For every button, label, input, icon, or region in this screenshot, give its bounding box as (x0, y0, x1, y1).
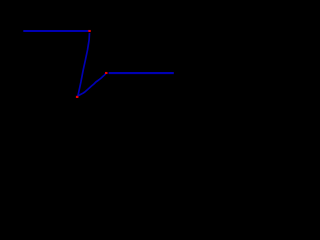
wire: descending segment B-C (78, 33, 90, 96)
node B (red marker) (88, 30, 90, 32)
wire: ascending segment C-D (78, 73, 106, 96)
wire: left horizontal segment A-B (23, 30, 89, 32)
wire: right horizontal segment D-E (109, 72, 174, 74)
node D (red marker) (105, 72, 108, 74)
node C (red marker) (76, 96, 79, 98)
